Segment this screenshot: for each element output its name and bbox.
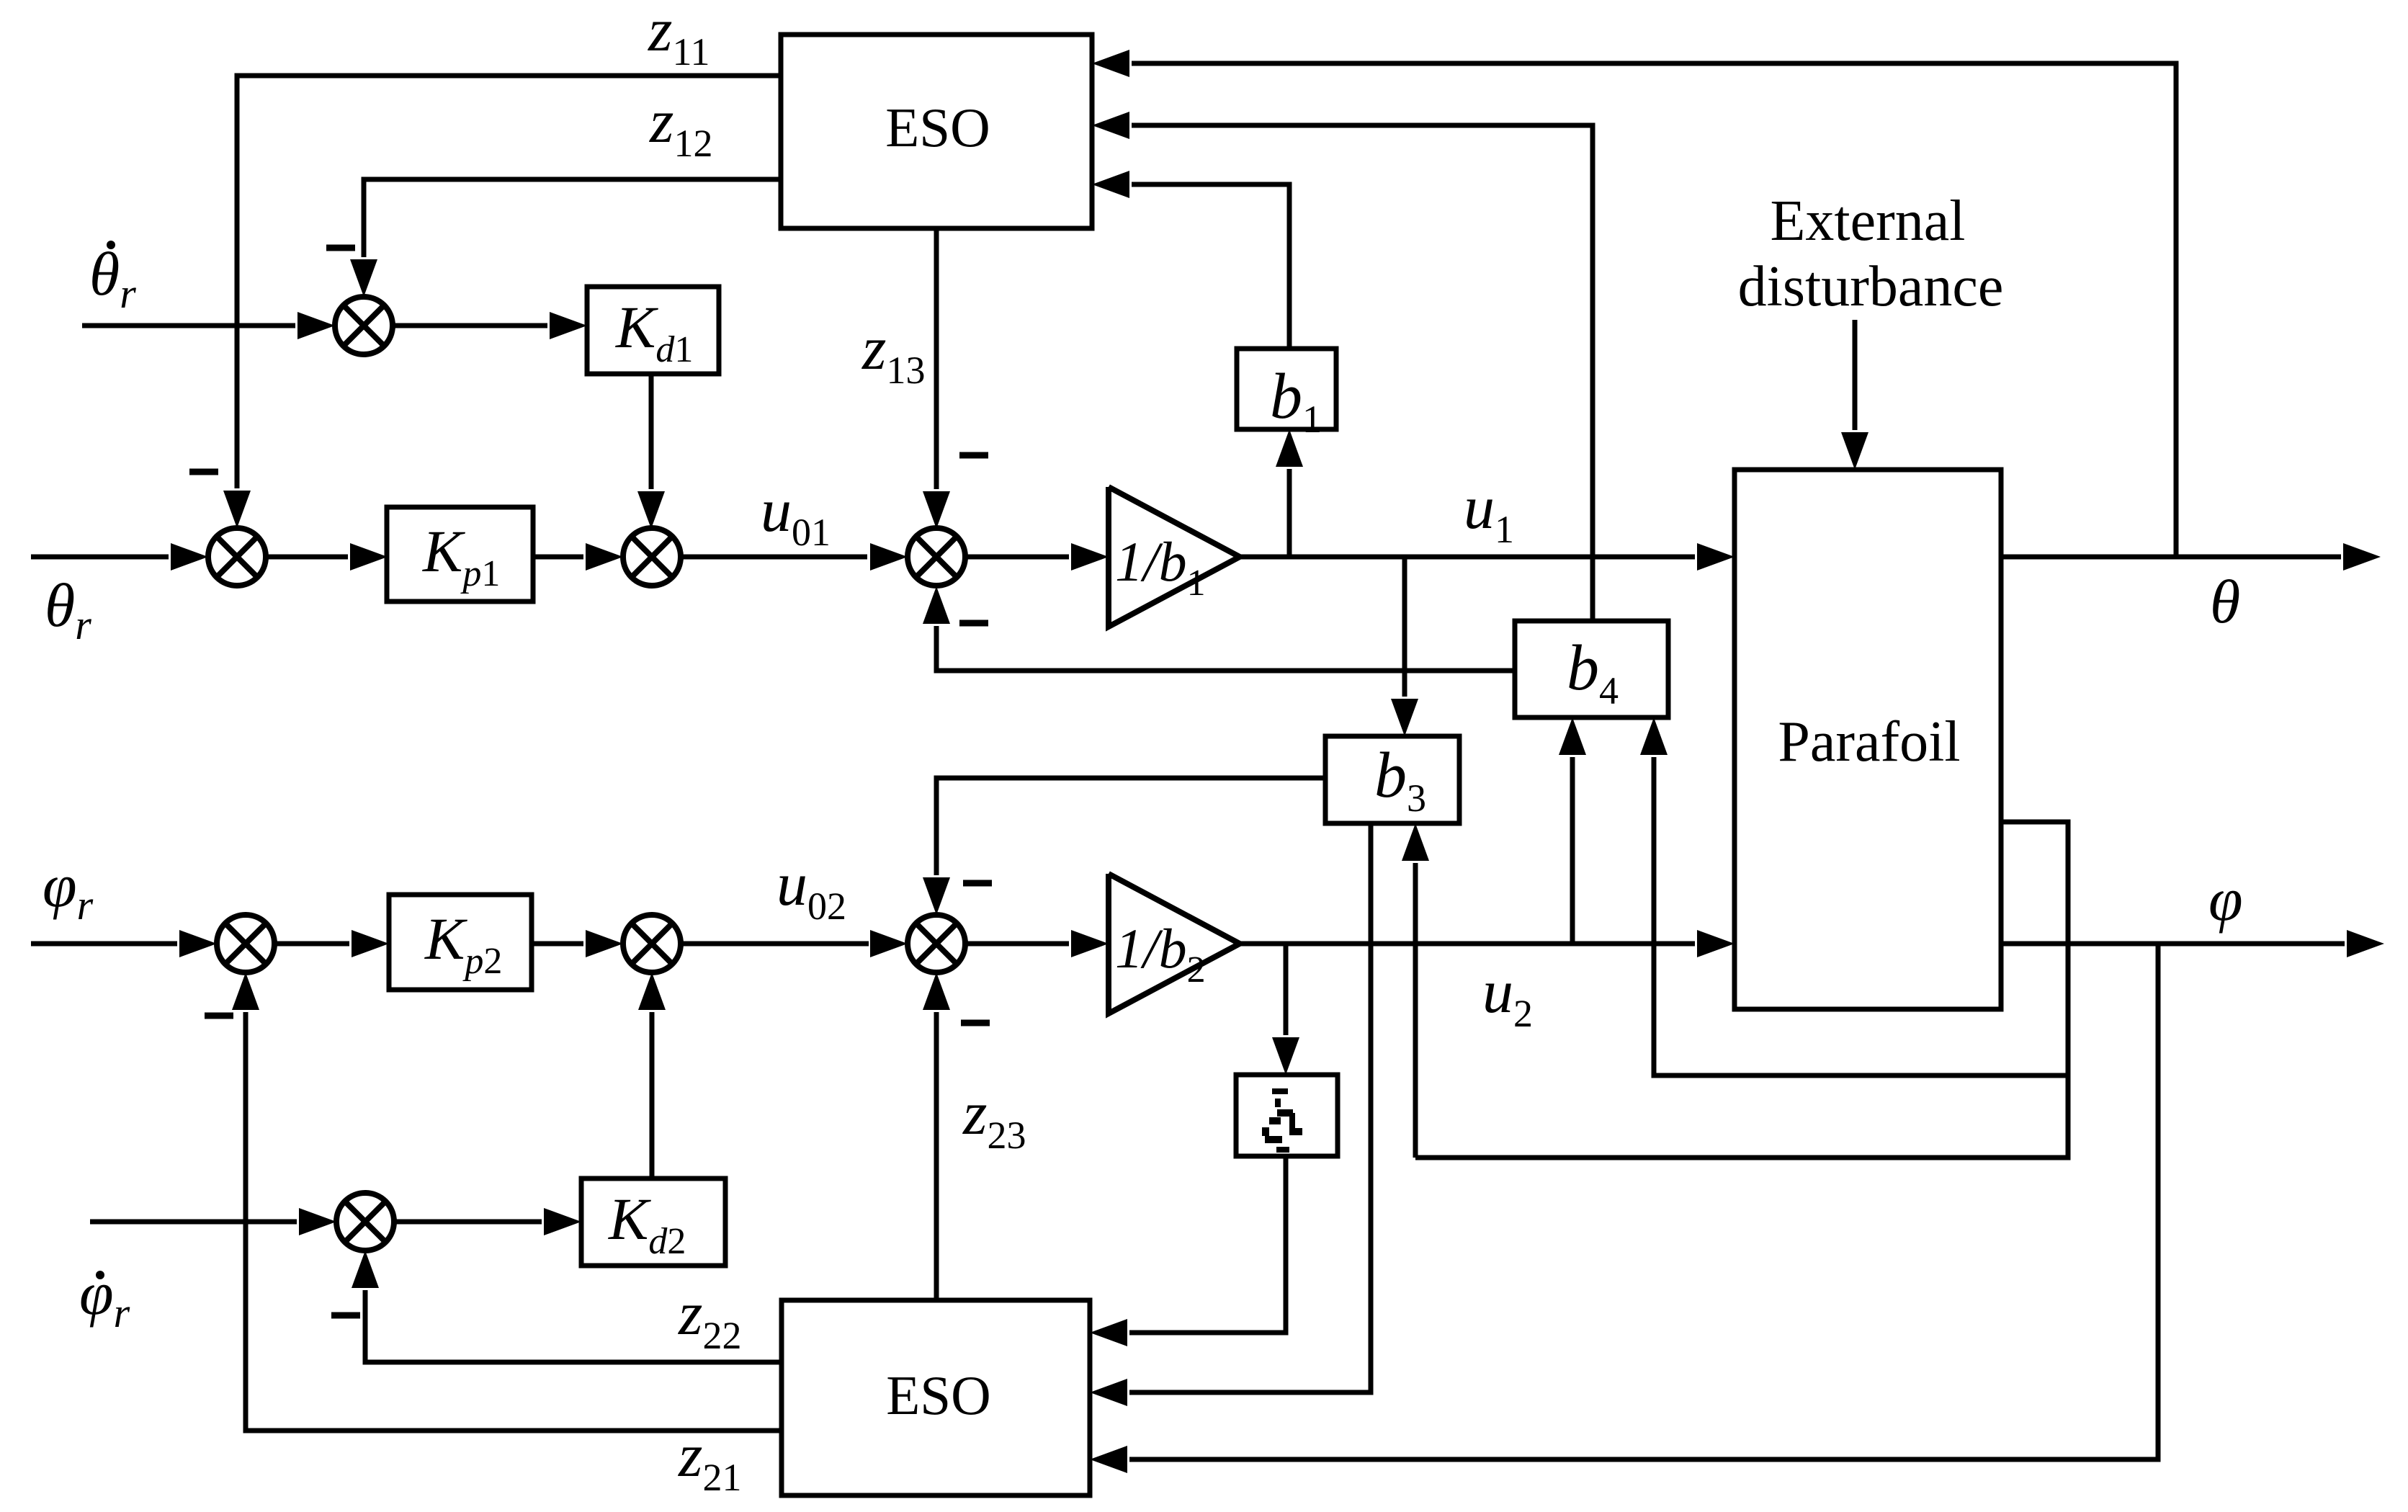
svg-text:disturbance: disturbance: [1738, 255, 2004, 318]
wire z22 feedback (ESO2 left to S7 bottom): [352, 1251, 782, 1362]
minus sign at S1 top input: [189, 469, 218, 475]
wire phi output line: [2001, 930, 2384, 957]
wire z13 (ESO1 bottom to S4 top): [923, 228, 950, 529]
svg-text:θ: θ: [2210, 567, 2240, 636]
summing junction S8 (u02 - b3u1 - z23): [908, 915, 965, 972]
wire b3 output to S8 top: [923, 778, 1325, 915]
gain block Kd1: [587, 287, 719, 374]
b4 label: [1567, 632, 1619, 712]
1/b2 label: [1115, 917, 1206, 990]
wire phi_dot_r input line: [90, 1208, 336, 1235]
1/b1 label: [1115, 530, 1206, 604]
wire b4 output up to ESO1 input 2: [1092, 112, 1593, 621]
svg-text:Parafoil: Parafoil: [1778, 710, 1960, 774]
minus sign at S8 top input: [963, 880, 992, 887]
minus sign at S4 top input: [959, 452, 988, 459]
z22 label: [678, 1279, 741, 1357]
wire S3 to S4 (u01): [681, 543, 908, 571]
gain block b2hat (degraded print): [1236, 1075, 1338, 1156]
wire feedback up into b4 bottom right: [1640, 717, 2068, 1075]
theta_dot_r label: [89, 239, 136, 317]
ESO block 2: [782, 1300, 1090, 1495]
wire theta_dot_r input line: [82, 312, 335, 339]
u01 label: [761, 475, 831, 554]
u1 label: [1464, 473, 1514, 551]
z23 label: [962, 1078, 1026, 1157]
b3 label: [1374, 740, 1426, 820]
summing junction S7 (phi_dot_r - z22): [336, 1193, 394, 1251]
phi_dot_r label: [79, 1258, 130, 1336]
gain block Kd2: [581, 1178, 725, 1266]
summing junction S2 (theta_dot_r - z12): [335, 297, 393, 354]
Kd2 label: [608, 1186, 686, 1262]
wire phi feedback down to ESO2 input 3: [1090, 944, 2158, 1473]
wire theta_r input line: [31, 543, 208, 571]
b1 label: [1270, 361, 1322, 441]
summing junction S4 (u01 - z13 - b4u2): [908, 528, 965, 586]
theta_r label: [45, 571, 91, 648]
wire feedback up into b3 bottom: [1402, 823, 1429, 1158]
svg-text:ESO: ESO: [885, 97, 990, 158]
gain block b4: [1515, 621, 1668, 717]
summing junction S1 (theta_r - z11): [208, 528, 266, 586]
minus sign at S4 bottom input: [959, 620, 988, 627]
wire u2 junction down into b2hat box: [1272, 944, 1299, 1075]
phi_r label: [42, 851, 94, 929]
wire z11 feedback (ESO1 left to S1 top): [223, 76, 781, 528]
z12 label: [649, 86, 712, 165]
svg-text:ESO: ESO: [886, 1364, 990, 1426]
wire S8 to amplifier 1/b2: [965, 930, 1109, 957]
wire z12 feedback (ESO1 left to S2 top): [350, 179, 781, 297]
Kd1 label: [615, 294, 693, 370]
wire b4 output to S4 bottom (coupling comp.): [923, 586, 1515, 671]
u2 label: [1482, 957, 1533, 1035]
ESO1 label: [885, 97, 990, 158]
wire S6 to S8 (u02): [681, 930, 908, 957]
gain block Kp2: [389, 895, 532, 990]
wire b1 output up to ESO1 input 3: [1092, 171, 1289, 349]
Kp2 label: [424, 905, 502, 982]
wire u1 junction down into b3 top: [1391, 557, 1418, 736]
minus sign at S8 bottom input: [961, 1020, 990, 1026]
theta output label: [2210, 567, 2240, 636]
wire u2 junction up into b4 bottom: [1559, 717, 1586, 944]
wire external disturbance arrow into Parafoil top: [1841, 320, 1868, 470]
amplifier triangle 1/b1: [1109, 487, 1240, 627]
ESO2 label: [886, 1364, 990, 1426]
wire theta feedback to ESO1 input 1: [1092, 50, 2176, 557]
summing junction S3 (Kp1 + Kd1): [623, 528, 681, 586]
wire z21 feedback (ESO2 left to S5 bottom): [232, 972, 782, 1431]
svg-text:φ: φ: [2208, 864, 2243, 934]
gain block Kp1: [387, 507, 533, 601]
wire S1 to Kp1: [266, 543, 388, 571]
wire Kd2 up to S6: [638, 972, 666, 1178]
wire u1 line (1/b1 to Parafoil): [1240, 543, 1735, 571]
gain block b3: [1325, 736, 1459, 823]
wire u1 junction up into b1: [1276, 429, 1303, 557]
u02 label: [776, 849, 846, 928]
Parafoil plant block: [1735, 470, 2001, 1009]
wire z23 (ESO2 top to S8 bottom): [923, 972, 950, 1300]
minus sign at S5 bottom input: [205, 1013, 233, 1019]
b2hat corrupted glyph: [1262, 1088, 1302, 1153]
wire Kd1 down to S3: [637, 374, 665, 529]
z21 label: [678, 1421, 741, 1499]
minus sign at S7 bottom input: [331, 1312, 360, 1319]
wire S2 to Kd1: [393, 312, 587, 339]
wire Kp2 to S6: [532, 930, 623, 957]
wire Kp1 to S3: [533, 543, 623, 571]
wire S4 to amplifier 1/b1: [965, 543, 1109, 571]
svg-text:External: External: [1771, 189, 1966, 253]
Kp1 label: [422, 518, 500, 594]
External disturbance label: [1738, 189, 2004, 318]
Parafoil label: [1778, 710, 1960, 774]
summing junction S5 (phi_r - z21): [217, 915, 274, 972]
wire Parafoil second output to feedback net: [1415, 822, 2068, 1158]
wire S7 to Kd2: [394, 1208, 581, 1235]
wire b3 output down to ESO2 input 2: [1090, 823, 1371, 1406]
ESO block 1: [781, 35, 1092, 228]
z11 label: [648, 0, 710, 73]
phi output label: [2208, 864, 2243, 934]
wire u2 line (1/b2 to Parafoil): [1240, 930, 1735, 957]
summing junction S6 (Kp2 + Kd2): [623, 915, 681, 972]
gain block b1: [1237, 349, 1336, 429]
wire S5 to Kp2: [274, 930, 389, 957]
wire b2hat output down to ESO2 input 1: [1090, 1156, 1286, 1346]
z13 label: [861, 313, 925, 392]
minus sign at S2 top input: [326, 245, 355, 251]
wire phi_r input line: [31, 930, 217, 957]
wire theta output line: [2001, 543, 2381, 571]
amplifier triangle 1/b2: [1109, 874, 1240, 1014]
